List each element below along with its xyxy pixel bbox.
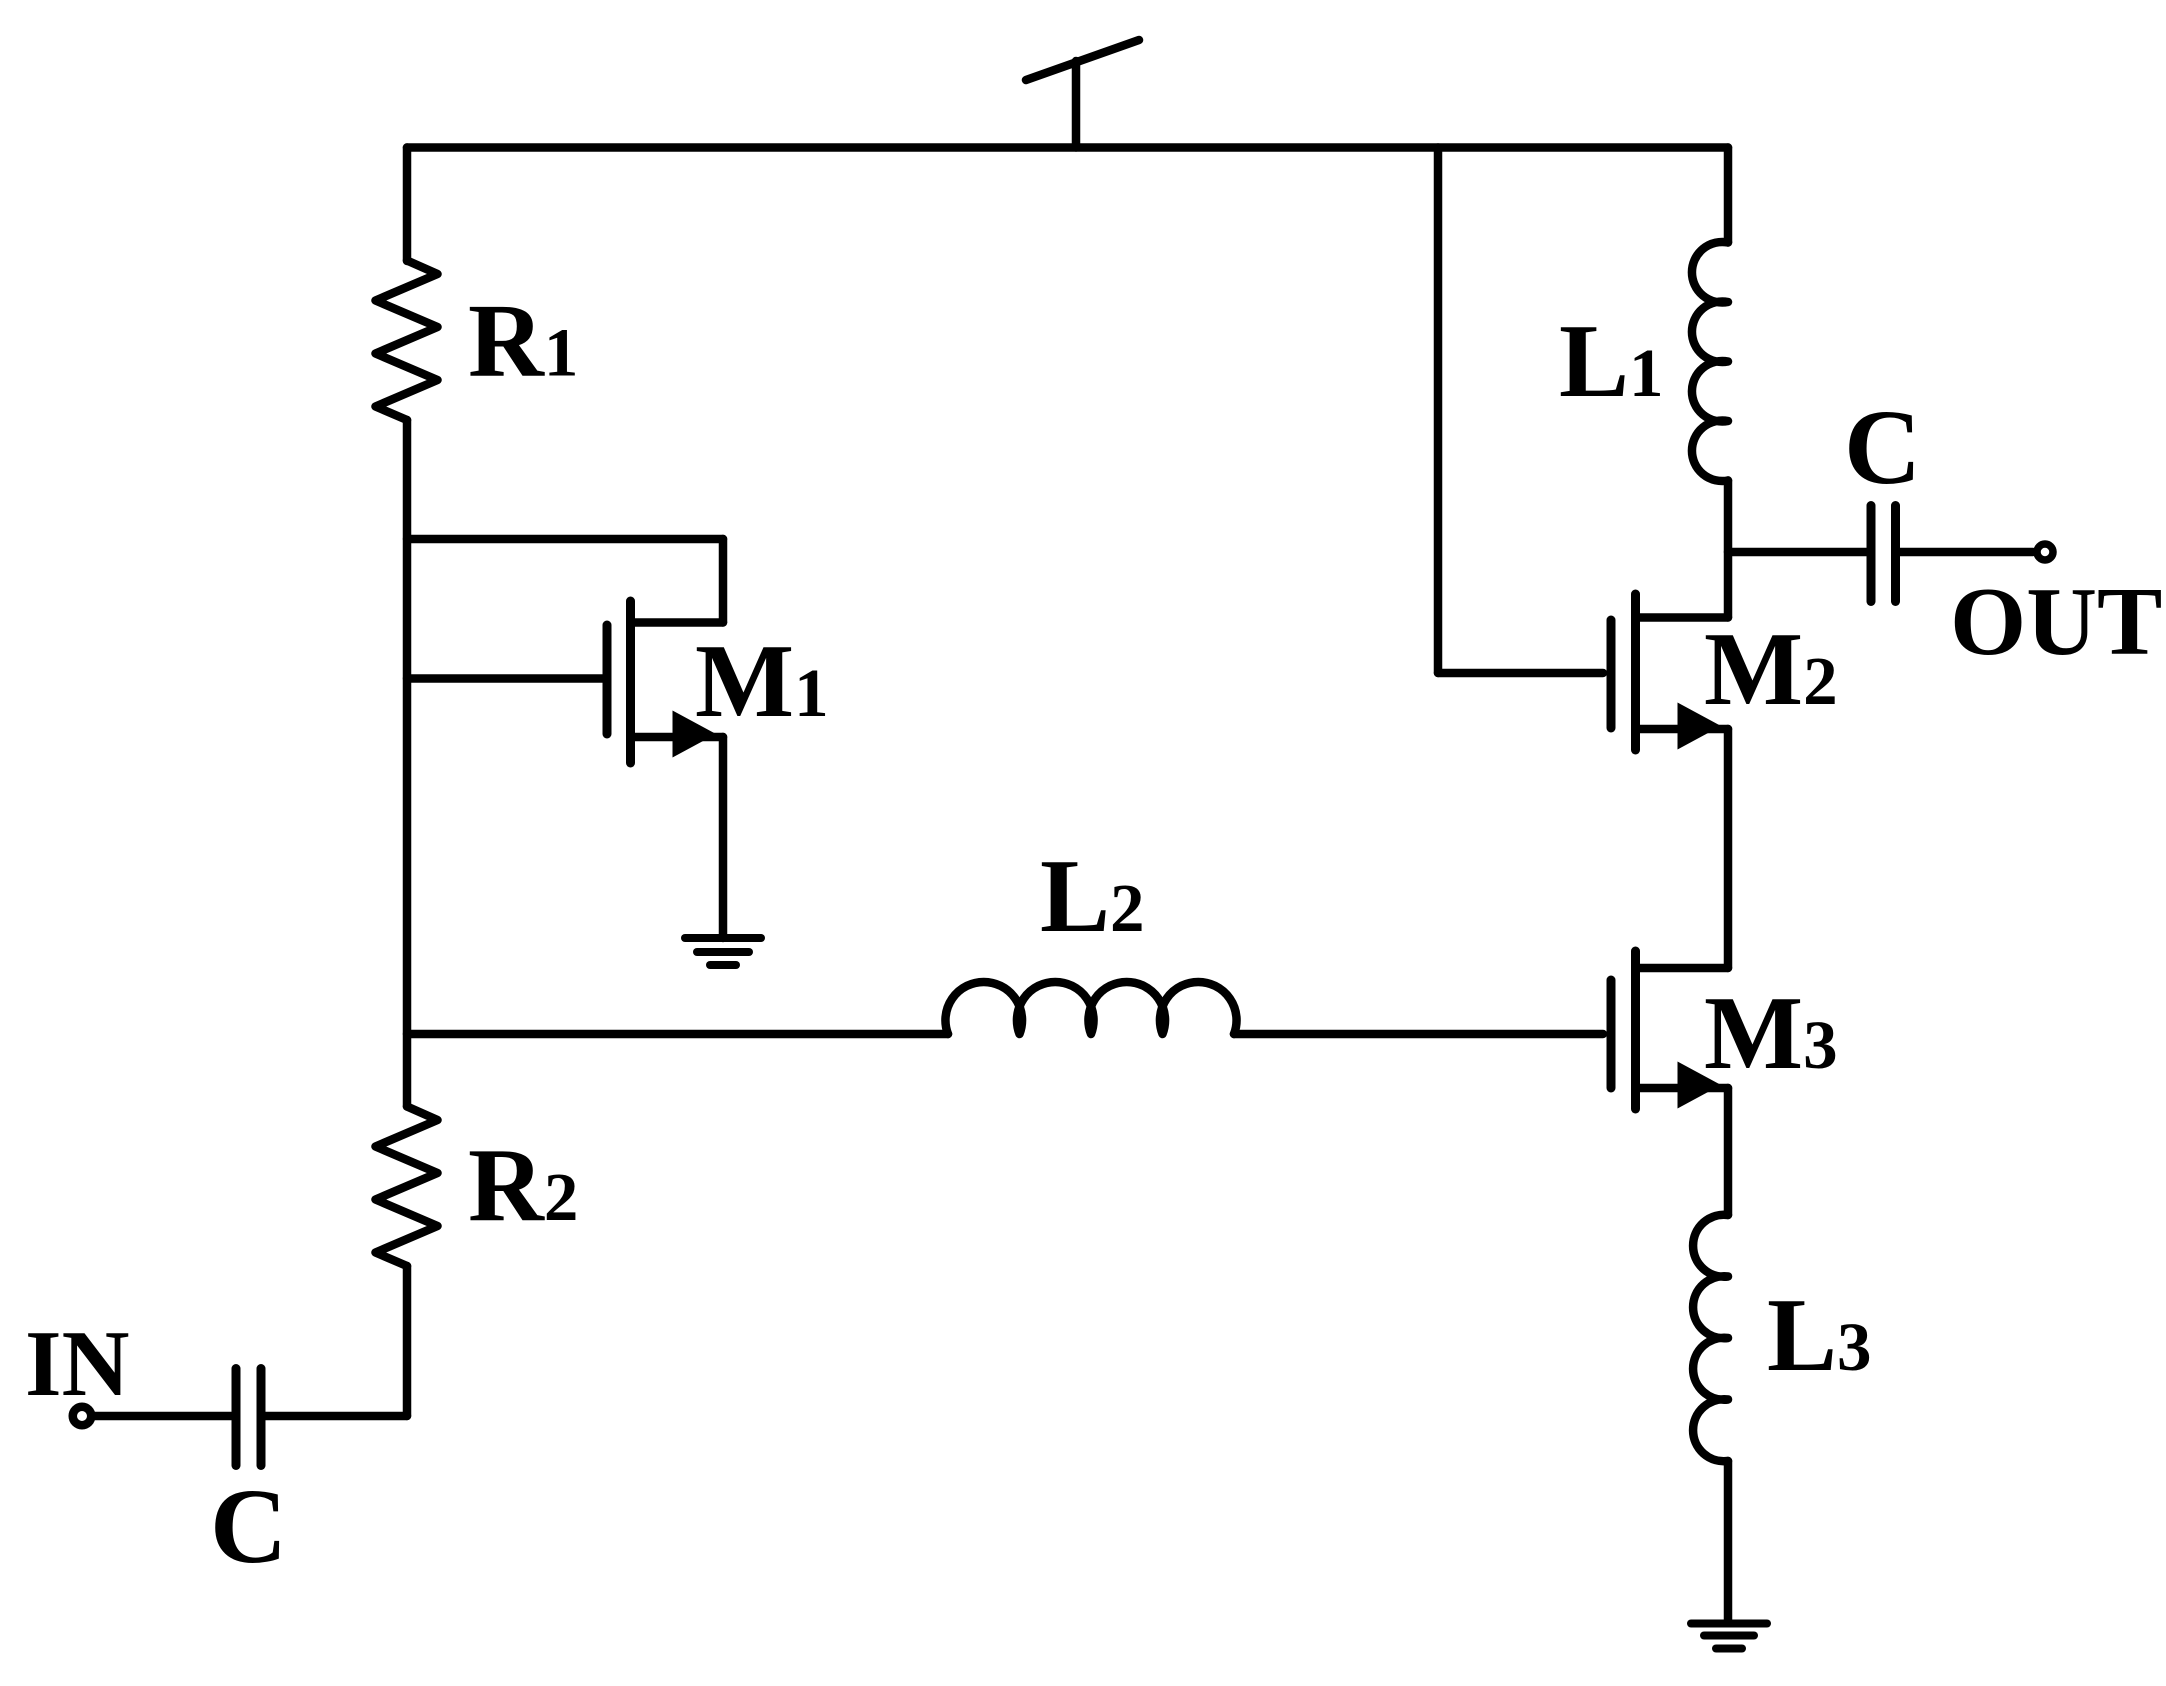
wire M3 source vertical <box>1724 1088 1733 1215</box>
capacitor C input right plate <box>257 1369 266 1466</box>
wire left vertical lower (R2 to input node) <box>403 1266 412 1416</box>
transistor M3 drain stub <box>1637 964 1728 973</box>
inductor L1 <box>1692 242 1728 481</box>
inductor L2 <box>945 982 1236 1034</box>
wire M1 source vertical <box>719 737 728 938</box>
svg-text:OUT: OUT <box>1950 568 2162 676</box>
svg-text:M2: M2 <box>1704 610 1838 727</box>
inductor L3 <box>1693 1215 1728 1462</box>
transistor M2 gate bar <box>1607 620 1616 728</box>
transistor M1 channel bar <box>626 601 635 763</box>
wire M1 drain vertical <box>719 539 728 623</box>
transistor M1 drain stub <box>632 618 723 627</box>
wire L3 to ground <box>1724 1461 1733 1623</box>
transistor M1 source arrow <box>673 711 717 758</box>
svg-text:L2: L2 <box>1040 837 1145 954</box>
wire right column top (rail to L1) <box>1724 148 1733 243</box>
transistor M2 source stub <box>1637 725 1728 734</box>
capacitor C output right plate <box>1891 506 1900 602</box>
svg-text:C: C <box>1844 389 1921 507</box>
svg-text:L1: L1 <box>1559 302 1664 419</box>
terminal OUT circle <box>2037 544 2053 560</box>
svg-text:M1: M1 <box>695 622 829 739</box>
svg-text:C: C <box>210 1468 287 1586</box>
transistor M2 drain stub <box>1637 613 1728 622</box>
resistor R2 <box>376 1107 438 1267</box>
transistor M3 source stub <box>1637 1084 1728 1093</box>
wire M2 source vertical <box>1724 729 1733 968</box>
wire L2 left segment <box>407 1030 948 1039</box>
power VDD stub <box>1072 61 1081 148</box>
power VDD slanted bar <box>1026 40 1139 80</box>
ground for M3 source <box>1691 1620 1767 1628</box>
wire IN terminal to capacitor <box>92 1412 232 1421</box>
svg-text:L3: L3 <box>1767 1276 1872 1393</box>
wire M1 drain horizontal <box>407 535 723 544</box>
transistor M1 gate bar <box>603 625 612 734</box>
resistor R1 <box>376 261 438 421</box>
wire M2 gate feed vertical <box>1434 148 1443 674</box>
svg-text:M3: M3 <box>1704 974 1838 1091</box>
transistor M2 source arrow <box>1678 703 1722 750</box>
transistor M1 source stub <box>632 733 723 742</box>
wire capacitor to left vertical <box>266 1412 408 1421</box>
svg-text:IN: IN <box>25 1312 129 1416</box>
wire capacitor to OUT terminal <box>1900 548 2033 557</box>
svg-text:R2: R2 <box>468 1126 578 1243</box>
transistor M2 channel bar <box>1631 594 1640 750</box>
transistor M3 source arrow <box>1678 1062 1722 1109</box>
capacitor C input left plate <box>232 1369 241 1466</box>
terminal IN circle <box>73 1407 92 1426</box>
transistor M3 gate bar <box>1607 980 1616 1088</box>
capacitor C output left plate <box>1867 506 1876 602</box>
ground for M1 source <box>685 934 761 942</box>
wire left vertical upper (rail to R1) <box>403 148 412 262</box>
wire output horizontal <box>1728 548 1867 557</box>
transistor M3 channel bar <box>1631 951 1640 1109</box>
wire top supply rail <box>407 143 1728 152</box>
wire L2 right segment to M3 gate <box>1234 1030 1603 1039</box>
wire L1 bottom to M2 drain <box>1724 481 1733 618</box>
wire M1 gate lead <box>407 674 603 683</box>
svg-text:R1: R1 <box>468 282 578 399</box>
wire M2 gate lead <box>1438 669 1603 678</box>
wire left vertical middle (R1 to R2) <box>403 420 412 1107</box>
